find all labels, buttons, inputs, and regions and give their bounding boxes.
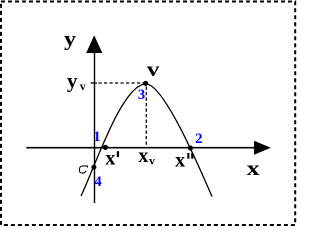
C dot (y-intercept) — [91, 165, 96, 170]
vertex dot — [143, 81, 148, 86]
svg-text:4: 4 — [94, 174, 102, 190]
svg-text:2: 2 — [195, 131, 203, 147]
y_v tick across y-axis — [91, 82, 97, 84]
y-axis arrowhead — [86, 35, 102, 53]
svg-text:y: y — [64, 28, 76, 50]
x-axis arrowhead — [254, 141, 271, 155]
left root dot (x') — [103, 145, 108, 150]
svg-text:v: v — [80, 79, 86, 93]
svg-text:x: x — [138, 145, 148, 167]
label C — [79, 166, 87, 173]
parabola curve — [81, 84, 212, 197]
svg-text:x: x — [175, 149, 185, 171]
svg-text:x: x — [105, 148, 115, 170]
y-axis — [94, 50, 96, 203]
svg-text:v: v — [147, 59, 160, 81]
svg-text:1: 1 — [93, 129, 101, 145]
dashed helper line y_v to vertex — [99, 82, 145, 84]
right root dot (x'') — [188, 145, 193, 150]
dashed helper line vertex to x_v — [145, 87, 147, 147]
svg-text:v: v — [149, 154, 155, 168]
svg-text:x: x — [247, 158, 260, 180]
svg-text:3: 3 — [138, 87, 146, 103]
prime of x' — [117, 151, 119, 157]
x-axis — [26, 147, 256, 149]
svg-text:y: y — [67, 71, 78, 93]
primes of x'' — [187, 153, 189, 159]
